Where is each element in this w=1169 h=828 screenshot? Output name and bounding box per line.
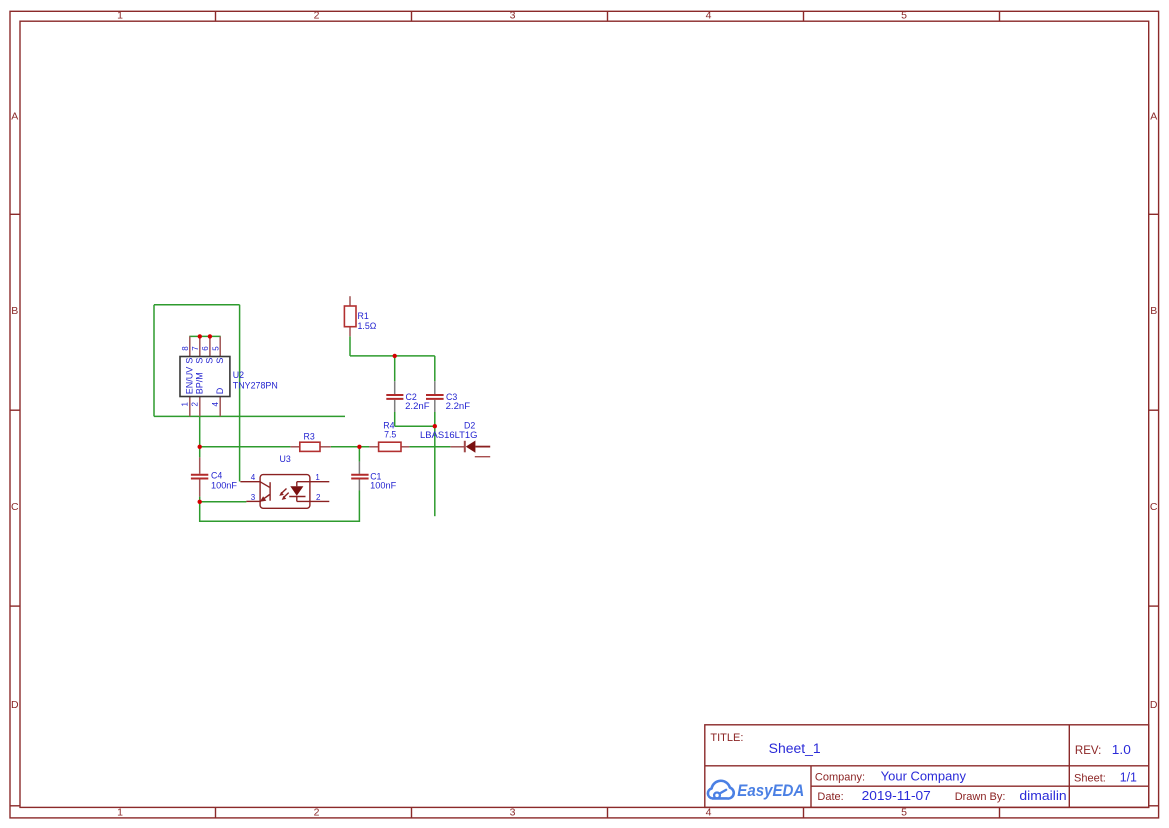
svg-text:8: 8: [181, 346, 190, 351]
pin R1 bottom: [349, 327, 351, 337]
svg-text:TNY278PN: TNY278PN: [233, 381, 278, 391]
svg-text:100nF: 100nF: [370, 480, 397, 490]
wire to U3 pin3: [200, 501, 247, 503]
capacitor C3 plates: [426, 394, 444, 396]
svg-text:Date:: Date:: [817, 791, 843, 803]
resistor R1: [344, 306, 356, 327]
svg-text:D: D: [11, 699, 19, 711]
svg-text:1.5Ω: 1.5Ω: [358, 321, 377, 331]
svg-text:B: B: [11, 305, 18, 317]
EasyEDA logo: [708, 781, 804, 800]
pin C2 bottom: [394, 400, 396, 412]
pin R3 right: [320, 446, 331, 448]
wire C4 bottom: [199, 497, 201, 502]
diode D2: [465, 441, 490, 457]
frame row letters right: [1150, 111, 1158, 711]
pin U2-2: [199, 396, 201, 416]
svg-text:5: 5: [211, 346, 220, 351]
svg-text:2: 2: [314, 10, 320, 22]
IC U2 body: [180, 357, 230, 397]
wire main node to R3: [200, 446, 291, 448]
wire R1 bottom: [349, 336, 351, 356]
svg-text:U3: U3: [280, 454, 291, 464]
photon arrows: [282, 489, 287, 494]
junction at U2 pin 7: [198, 334, 202, 338]
svg-text:2: 2: [314, 807, 320, 819]
svg-text:B: B: [1150, 305, 1157, 317]
pin U3-4: [240, 481, 260, 483]
pin U3-1: [297, 481, 330, 483]
D2 cathode bar: [464, 441, 466, 453]
pin D2 NC stub: [475, 456, 490, 458]
wire bottom rail: [200, 491, 360, 522]
LED: [296, 482, 298, 487]
svg-text:1: 1: [117, 10, 123, 22]
svg-text:A: A: [1150, 111, 1157, 123]
optocoupler U3: [240, 475, 329, 509]
svg-text:7.5: 7.5: [384, 430, 396, 440]
svg-text:1/1: 1/1: [1120, 771, 1137, 785]
junction R1/C2 node: [393, 354, 397, 358]
svg-text:LBAS16LT1G: LBAS16LT1G: [420, 430, 478, 440]
svg-text:Sheet_1: Sheet_1: [769, 741, 821, 756]
title block texts: [710, 732, 1105, 803]
wire horizontal under U2: [154, 415, 345, 417]
pin U2-1: [189, 396, 191, 416]
wire C3 top vertical: [434, 356, 436, 381]
pin U2-5: [219, 336, 221, 356]
svg-text:2019-11-07: 2019-11-07: [862, 789, 931, 803]
svg-text:4: 4: [211, 402, 220, 407]
pin U2-8: [189, 336, 191, 356]
svg-text:BP/M: BP/M: [194, 372, 204, 394]
pin U2-6: [209, 336, 211, 356]
svg-text:1: 1: [315, 473, 320, 482]
frame row letters left: [11, 111, 19, 711]
frame column numbers top: [117, 10, 907, 22]
pin U3-3: [246, 500, 261, 502]
svg-text:Drawn By:: Drawn By:: [955, 791, 1006, 803]
svg-text:1: 1: [181, 402, 190, 407]
junction C1 node: [357, 445, 361, 449]
svg-text:1.0: 1.0: [1112, 742, 1131, 757]
svg-text:3: 3: [510, 10, 516, 22]
svg-text:D: D: [1150, 699, 1158, 711]
svg-text:A: A: [11, 111, 18, 123]
wire pin2 down to C4 node: [199, 416, 201, 446]
svg-text:S: S: [184, 358, 194, 364]
svg-text:R3: R3: [304, 431, 315, 441]
pin U2-7: [199, 336, 201, 356]
wire C4 top: [199, 447, 201, 458]
pin C1 top: [358, 462, 360, 474]
svg-text:Company:: Company:: [815, 772, 865, 784]
svg-text:C: C: [11, 501, 19, 513]
wire R4 to D2: [409, 446, 450, 448]
svg-text:6: 6: [201, 346, 210, 351]
svg-text:4: 4: [251, 473, 256, 482]
svg-text:2.2nF: 2.2nF: [405, 401, 430, 411]
svg-text:2.2nF: 2.2nF: [446, 401, 471, 411]
phototransistor: [269, 482, 271, 501]
svg-text:U2: U2: [233, 370, 244, 380]
pin C2 top: [394, 381, 396, 394]
svg-text:5: 5: [901, 10, 907, 22]
svg-text:D2: D2: [464, 420, 475, 430]
resistor R3: [300, 442, 320, 451]
wire C3 bottom long vertical: [434, 412, 436, 516]
pin R4 right: [401, 446, 409, 448]
capacitor C1 plates: [351, 474, 368, 476]
svg-text:Sheet:: Sheet:: [1074, 773, 1106, 785]
pin C1 bottom: [358, 479, 360, 490]
wire right vertical to U3 pin4: [239, 305, 241, 482]
svg-text:TITLE:: TITLE:: [710, 732, 743, 744]
svg-text:100nF: 100nF: [211, 480, 238, 490]
wire C2 bottom: [394, 412, 396, 426]
svg-text:5: 5: [901, 807, 907, 819]
pin C3 bottom: [434, 400, 436, 412]
frame column numbers bottom: [117, 807, 907, 819]
pin D2 anode lead: [475, 446, 490, 448]
svg-text:S: S: [205, 358, 215, 364]
svg-text:dimailin: dimailin: [1019, 789, 1066, 803]
wire R3 to C1 node: [331, 446, 370, 448]
title block outline: [705, 725, 1149, 808]
svg-text:S: S: [194, 358, 204, 364]
wire tying U2 source pins: [189, 335, 220, 337]
svg-text:2: 2: [191, 402, 200, 407]
pin C4 bottom: [199, 479, 201, 496]
svg-text:3: 3: [510, 807, 516, 819]
svg-text:Your Company: Your Company: [881, 770, 967, 784]
wire top of U2 loop: [154, 304, 240, 306]
svg-text:4: 4: [706, 10, 712, 22]
D2 triangle: [466, 441, 476, 453]
pin R4 left: [369, 446, 378, 448]
svg-text:D: D: [215, 387, 225, 394]
svg-text:EN/UV: EN/UV: [184, 367, 194, 395]
svg-text:2: 2: [316, 493, 321, 502]
wire top node horizontal: [350, 355, 435, 357]
wire C2 to C3 bottom: [395, 425, 435, 427]
capacitor C4 plates: [191, 474, 208, 476]
svg-text:4: 4: [706, 807, 712, 819]
junction at U2 pin 6: [208, 334, 212, 338]
pin C3 top: [434, 381, 436, 394]
svg-text:7: 7: [191, 346, 200, 351]
pin R3 left: [290, 446, 299, 448]
svg-text:S: S: [215, 358, 225, 364]
wire C1 top: [358, 447, 360, 462]
junction C3 bottom node: [433, 424, 437, 428]
pin R1 top: [349, 296, 351, 306]
pin U2-4: [219, 396, 221, 416]
svg-text:3: 3: [251, 493, 256, 502]
wire left leg of loop: [153, 305, 155, 417]
pin D2 anode side: [450, 446, 464, 448]
pin U3-2: [297, 500, 330, 502]
svg-text:EasyEDA: EasyEDA: [737, 782, 804, 800]
junction C4 bottom node: [198, 500, 202, 504]
resistor R4: [379, 442, 401, 451]
svg-text:1: 1: [117, 807, 123, 819]
junction C4/pin2 node: [198, 445, 202, 449]
svg-text:C: C: [1150, 501, 1158, 513]
svg-text:C4: C4: [211, 471, 222, 481]
capacitor C2 plates: [386, 394, 403, 396]
svg-text:REV:: REV:: [1075, 745, 1101, 757]
wire C2 top: [394, 356, 396, 381]
svg-text:R1: R1: [358, 311, 369, 321]
pin C4 top: [199, 457, 201, 473]
